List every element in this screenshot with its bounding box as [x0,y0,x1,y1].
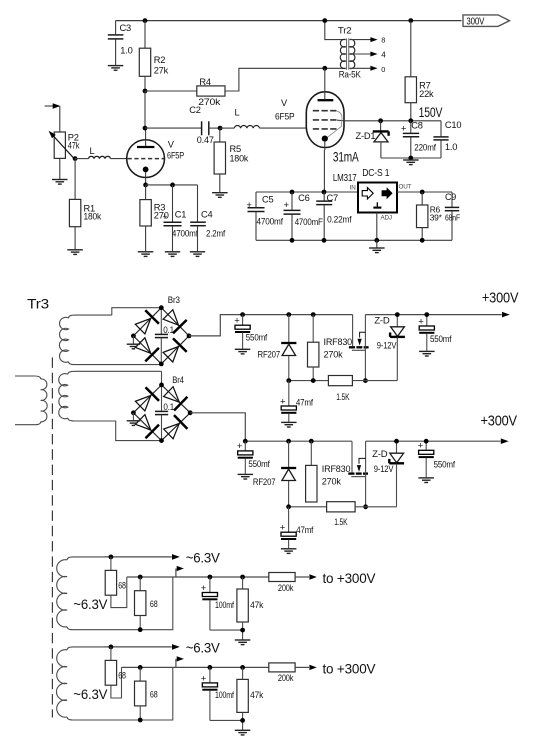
junction Br3 top [159,305,164,310]
terminal arrow row4 [176,656,184,667]
svg-text:550mf: 550mf [246,333,268,343]
svg-text:9-12V: 9-12V [377,340,397,350]
capacitor C1 [162,185,198,251]
junction Br3 right [187,334,192,339]
junction row1 zener top [395,312,400,317]
junction C2-R5 [218,126,223,131]
wire ADJ pin [376,213,378,241]
junction ADJ bottom [374,238,379,243]
svg-text:0: 0 [381,65,385,74]
ground C1 [165,252,180,257]
svg-text:200k: 200k [278,583,294,593]
svg-text:Tr2: Tr2 [338,26,352,36]
capacitor Br4 0.1 [155,385,174,441]
transformer Tr2 [325,21,362,80]
ground 550mf row1 left [235,349,251,354]
Br4 diode left-top [135,387,159,411]
junction heater row3 68b bottom [138,627,143,632]
svg-text:IRF830: IRF830 [324,337,353,347]
junction Br4 left [131,410,136,415]
svg-text:~6.3V: ~6.3V [186,639,221,655]
svg-text:~6.3V: ~6.3V [186,549,221,565]
svg-text:100mf: 100mf [215,600,234,610]
junction heater row3 47k top [240,575,245,580]
node ~6.3V row4 left [73,686,108,702]
junction row1 diode bottom [286,378,291,383]
svg-text:+: + [246,200,252,211]
svg-text:27k: 27k [154,66,169,76]
triode V 6F5P [127,128,184,185]
junction R2-R4 [143,89,148,94]
svg-text:47k: 47k [250,600,263,610]
svg-text:1.0: 1.0 [120,46,132,56]
junction C6 bottom [290,238,295,243]
svg-text:R5: R5 [230,144,242,154]
svg-text:+300V: +300V [481,412,518,429]
wire to C2 [145,127,201,129]
wire heater row4 mid [122,666,269,668]
junction heater row3 68b top [138,575,143,580]
junction cathode node [143,183,148,188]
resistor 1.5K row2 [327,502,397,527]
svg-text:68: 68 [150,599,158,609]
svg-text:IRF830: IRF830 [322,464,351,474]
capacitor 47mf row1 [280,381,313,422]
Br3 diode bottom-right [163,338,187,362]
Tr3 core [51,358,53,718]
ground Br4 [127,413,141,426]
svg-text:270k: 270k [322,476,342,486]
input arrow [45,103,61,132]
capacitor 550mf row1 left [234,315,267,349]
junction R7-rail [408,18,413,23]
regulator U1 LM317 DC-S1 [333,168,412,221]
junction R6 bottom [420,238,425,243]
junction Tr2-rail [322,18,327,23]
svg-text:C6: C6 [298,193,310,203]
svg-text:R4: R4 [199,77,211,87]
svg-text:9-12V: 9-12V [374,464,394,474]
junction C8 bottom [408,156,413,161]
junction row1 270k top [311,312,316,317]
svg-text:Z-D1: Z-D1 [356,131,376,141]
junction anode-Tr2 [322,66,327,71]
junction heater row4 68a [109,645,114,650]
Tr2 tap 0 [350,65,386,74]
wire +300V top rail [116,20,462,22]
wire L to grid [111,158,128,160]
wire row2 output rail [366,438,509,444]
capacitor C5 [246,192,283,240]
svg-text:C10: C10 [445,120,461,130]
resistor R3 [140,185,169,251]
ground 550mf row1 right [419,351,435,356]
Br3 diode left-bottom [135,338,159,362]
junction row2 270k top [309,439,314,444]
svg-text:to +300V: to +300V [323,661,377,677]
wire LM317 OUT rail [397,191,452,193]
svg-text:1.5K: 1.5K [334,517,347,527]
svg-text:~6.3V: ~6.3V [73,686,108,702]
transformer Tr3 label [27,295,49,311]
diode RF207 row1 [258,315,297,381]
diode RF207 row2 [253,441,296,507]
svg-text:22k: 22k [419,89,434,99]
svg-text:68: 68 [118,581,126,591]
ground R1 [67,250,83,255]
svg-text:39*: 39* [430,213,443,223]
capacitor Br3 0.1 [155,308,174,364]
resistor 200k row3 [269,573,317,593]
junction heater row4 68b top [138,665,143,670]
svg-text:C8: C8 [411,120,423,130]
svg-text:L: L [235,108,240,118]
junction Br4 top [159,383,164,388]
svg-text:+300V: +300V [482,290,519,307]
svg-text:180k: 180k [84,212,102,222]
ground C8 [403,160,419,165]
capacitor C4 [190,185,225,251]
wire R2 to C2 node [144,91,146,128]
wire screen to C10 [344,120,441,122]
ground C3 [108,66,124,71]
wire LM317 IN rail [256,191,358,193]
node +300V row2 [481,412,518,429]
ground P2 [52,180,68,185]
resistor R7 [405,21,434,121]
junction row2 cap2 [424,439,429,444]
svg-text:+: + [284,200,290,211]
junction Br3 bottom [159,362,164,367]
capacitor C2 [189,105,220,145]
svg-text:6F5P: 6F5P [275,111,295,121]
wire Br3 out [189,315,353,336]
resistor 270k row1 [308,315,353,381]
Tr2 tap 4 [350,51,387,60]
svg-text:+: + [162,212,167,222]
wire heater row4 bottom [73,667,173,720]
Br3 diode left-top [135,310,159,334]
node ~6.3V row3 left [73,596,108,612]
svg-text:DC-S 1: DC-S 1 [362,168,389,179]
wire Br4 out [190,413,245,441]
junction row1 270k bottom [311,378,316,383]
svg-text:Br4: Br4 [172,375,184,385]
svg-text:Br3: Br3 [168,295,180,305]
junction R6 top [420,190,425,195]
svg-text:150V: 150V [419,104,443,120]
svg-text:C2: C2 [189,105,201,115]
svg-text:LM317: LM317 [333,173,357,184]
node 31mA label [333,149,359,165]
svg-text:C7: C7 [327,193,339,203]
capacitor 100mf row4 [201,667,243,720]
svg-text:V: V [281,98,288,108]
svg-text:270k: 270k [324,350,344,360]
svg-text:270k: 270k [198,97,220,107]
svg-text:200k: 200k [278,673,294,683]
ground C4 [190,252,205,257]
svg-text:C4: C4 [201,209,213,219]
svg-text:180k: 180k [230,153,249,163]
ground 47mf row1 [281,422,297,427]
wire zener-C8-C10 bottom [381,157,441,159]
terminal arrow row3 [176,566,184,577]
wire LM317 bottom rail [256,239,452,241]
resistor R2 [139,21,168,91]
node +300V row1 [482,290,519,307]
ground R3 [138,252,154,257]
svg-text:300V: 300V [466,16,484,27]
junction C8 top [408,118,413,123]
zener Z-D1 [356,121,389,158]
junction row2 cap1 [243,439,248,444]
junction row2 diode top [286,439,291,444]
wire row1 output rail [365,312,509,318]
resistor 47k row4 [237,667,264,730]
wire heater row3 top [105,554,180,560]
Br4 diode left-bottom [135,415,159,439]
junction heater row3 47k bottom [240,628,245,633]
wire ADJ to ground [376,240,378,247]
bridge Br4 frame [133,375,190,441]
resistor R5 [214,128,249,192]
Tr3 primary winding [15,376,47,425]
transistor IRF830 row2 [348,441,368,507]
wire heater row4 top [105,644,180,650]
ground 47mf row2 [281,549,297,554]
svg-text:C3: C3 [120,23,132,33]
svg-text:Z-D: Z-D [374,315,390,325]
ground 550mf row2 left [238,474,254,479]
resistor 47k row3 [237,577,264,640]
svg-text:to +300V: to +300V [323,570,377,586]
junction row2 zener top [394,439,399,444]
Br3 diode top-right [163,310,187,334]
node ~6.3V row3 right [186,549,221,565]
junction heater row4 47k bottom [240,718,245,723]
junction heater row4 100mf top [208,665,213,670]
capacitor C3 [108,21,133,66]
Tr3 heater winding row4 [56,647,104,720]
svg-text:220mf: 220mf [414,142,436,152]
svg-text:0.1: 0.1 [163,325,174,335]
svg-text:0.47: 0.47 [197,135,214,145]
svg-text:R2: R2 [154,55,166,65]
svg-text:6F5P: 6F5P [167,151,184,161]
junction C7 top [322,190,327,195]
svg-text:V: V [168,140,175,150]
capacitor 550mf row2 left [237,441,270,474]
junction row2 diode bottom [286,504,291,509]
ground 47k row3 [235,640,251,645]
svg-text:68: 68 [150,689,158,699]
ground R5 [212,193,228,198]
svg-text:ADJ: ADJ [381,214,392,221]
svg-text:2.2mf: 2.2mf [206,228,226,238]
transistor IRF830 row1 [349,315,369,381]
junction R2-rail [143,18,148,23]
svg-text:31mA: 31mA [333,149,359,165]
junction heater row3 68a [109,555,114,560]
Tr3 heater winding row3 [57,557,105,630]
junction heater row3 100mf top [208,575,213,580]
svg-text:C9: C9 [445,192,456,202]
svg-text:550mf: 550mf [248,459,270,469]
capacitor 550mf row2 right [418,441,456,478]
capacitor C8 [401,120,436,158]
svg-text:OUT: OUT [399,184,412,191]
ground Br3 [127,336,141,349]
svg-text:C1: C1 [175,209,187,219]
junction row1 cap1 [240,312,245,317]
resistor R4 [145,68,325,107]
svg-text:IN: IN [350,185,357,192]
wire cathode bus [146,184,198,186]
Tr3 secondary winding 2 [59,371,162,440]
svg-text:47k: 47k [68,140,80,150]
resistor 270k row2 [306,441,351,502]
resistor 1.5K row1 [328,376,397,403]
svg-text:RF207: RF207 [253,477,276,487]
resistor 68b row4 [135,667,158,720]
junction Br3 left [131,334,136,339]
resistor 68a row4 [105,647,126,698]
junction C1 top [170,183,175,188]
capacitor 550mf row1 right [418,315,452,351]
resistor 68b row3 [135,577,158,630]
svg-text:+: + [401,123,407,134]
resistor 200k row4 [269,663,317,683]
potentiometer P2 [49,131,80,179]
svg-text:47mf: 47mf [296,525,314,535]
svg-text:RF207: RF207 [258,350,281,360]
zener Z-D row2 [372,441,404,507]
svg-text:0.22mf: 0.22mf [327,214,352,224]
svg-text:68: 68 [118,671,126,681]
ground 47k row4 [235,730,251,735]
junction C7 bottom [322,238,327,243]
Tr2 tap 8 [350,36,386,45]
junction C2 node [143,126,148,131]
svg-text:4700mf: 4700mf [257,217,284,227]
capacitor C6 [284,192,324,240]
node ~6.3V row4 right [186,639,221,655]
junction Br4 bottom [159,438,164,443]
capacitor C10 [433,120,461,158]
junction row1 gate [363,378,368,383]
wire row2 gate bus [289,506,327,508]
Tr3 secondary winding 1 [59,308,161,365]
Br4 diode bottom-right [164,415,188,439]
node 300V flag [463,15,510,27]
node to +300V row4 [323,661,377,677]
svg-text:550mf: 550mf [430,334,452,344]
capacitor 47mf row2 [280,507,314,549]
junction P2 wiper [73,156,78,161]
junction ZD1 top [378,118,383,123]
svg-text:8: 8 [381,36,385,45]
capacitor C9 [445,192,460,240]
node 150V label [419,104,443,120]
svg-text:68nF: 68nF [445,213,460,223]
wire heater row3 bottom [73,577,173,630]
inductor L input [89,146,111,159]
svg-text:1.0: 1.0 [445,142,457,152]
inductor L interstage [220,108,306,129]
wire row2 rail left [245,440,352,442]
wire heater row3 mid [127,576,269,578]
svg-text:Z-D: Z-D [372,449,388,459]
junction row2 gate [363,504,368,509]
zener Z-D row1 [374,315,405,381]
wire row1 gate bus [289,380,329,382]
svg-text:~6.3V: ~6.3V [73,596,108,612]
ground 550mf row2 right [418,478,434,483]
capacitor 100mf row3 [201,577,243,630]
junction row1 diode top [286,312,291,317]
svg-text:0.1: 0.1 [163,402,174,412]
svg-text:L: L [90,146,95,156]
svg-text:4700mF: 4700mF [295,217,323,227]
pentode V 6F5P [275,68,344,192]
capacitor C7 [316,192,352,240]
node to +300V row3 [323,570,377,586]
svg-text:4700mf: 4700mf [172,228,198,238]
svg-text:47k: 47k [250,690,263,700]
junction heater row4 47k top [240,665,245,670]
svg-text:550mf: 550mf [434,459,456,469]
bridge Br3 frame [133,295,189,364]
ground LM317 [369,248,385,253]
svg-text:1.5K: 1.5K [336,392,349,402]
junction heater row4 68b bottom [138,718,143,723]
svg-text:47mf: 47mf [296,397,314,407]
svg-text:Tr3: Tr3 [27,295,49,311]
wire wiper to L [75,158,88,160]
resistor R6 [417,192,443,240]
junction Br4 right [188,410,193,415]
svg-text:100mf: 100mf [215,690,234,700]
Br4 diode top-right [164,387,188,411]
junction C6 top [290,190,295,195]
resistor R1 [69,159,101,250]
svg-text:4: 4 [381,51,386,60]
svg-text:Ra-5K: Ra-5K [339,70,362,80]
junction row1 cap2 [424,312,429,317]
svg-text:C5: C5 [262,194,274,204]
resistor 68a row3 [105,557,127,608]
